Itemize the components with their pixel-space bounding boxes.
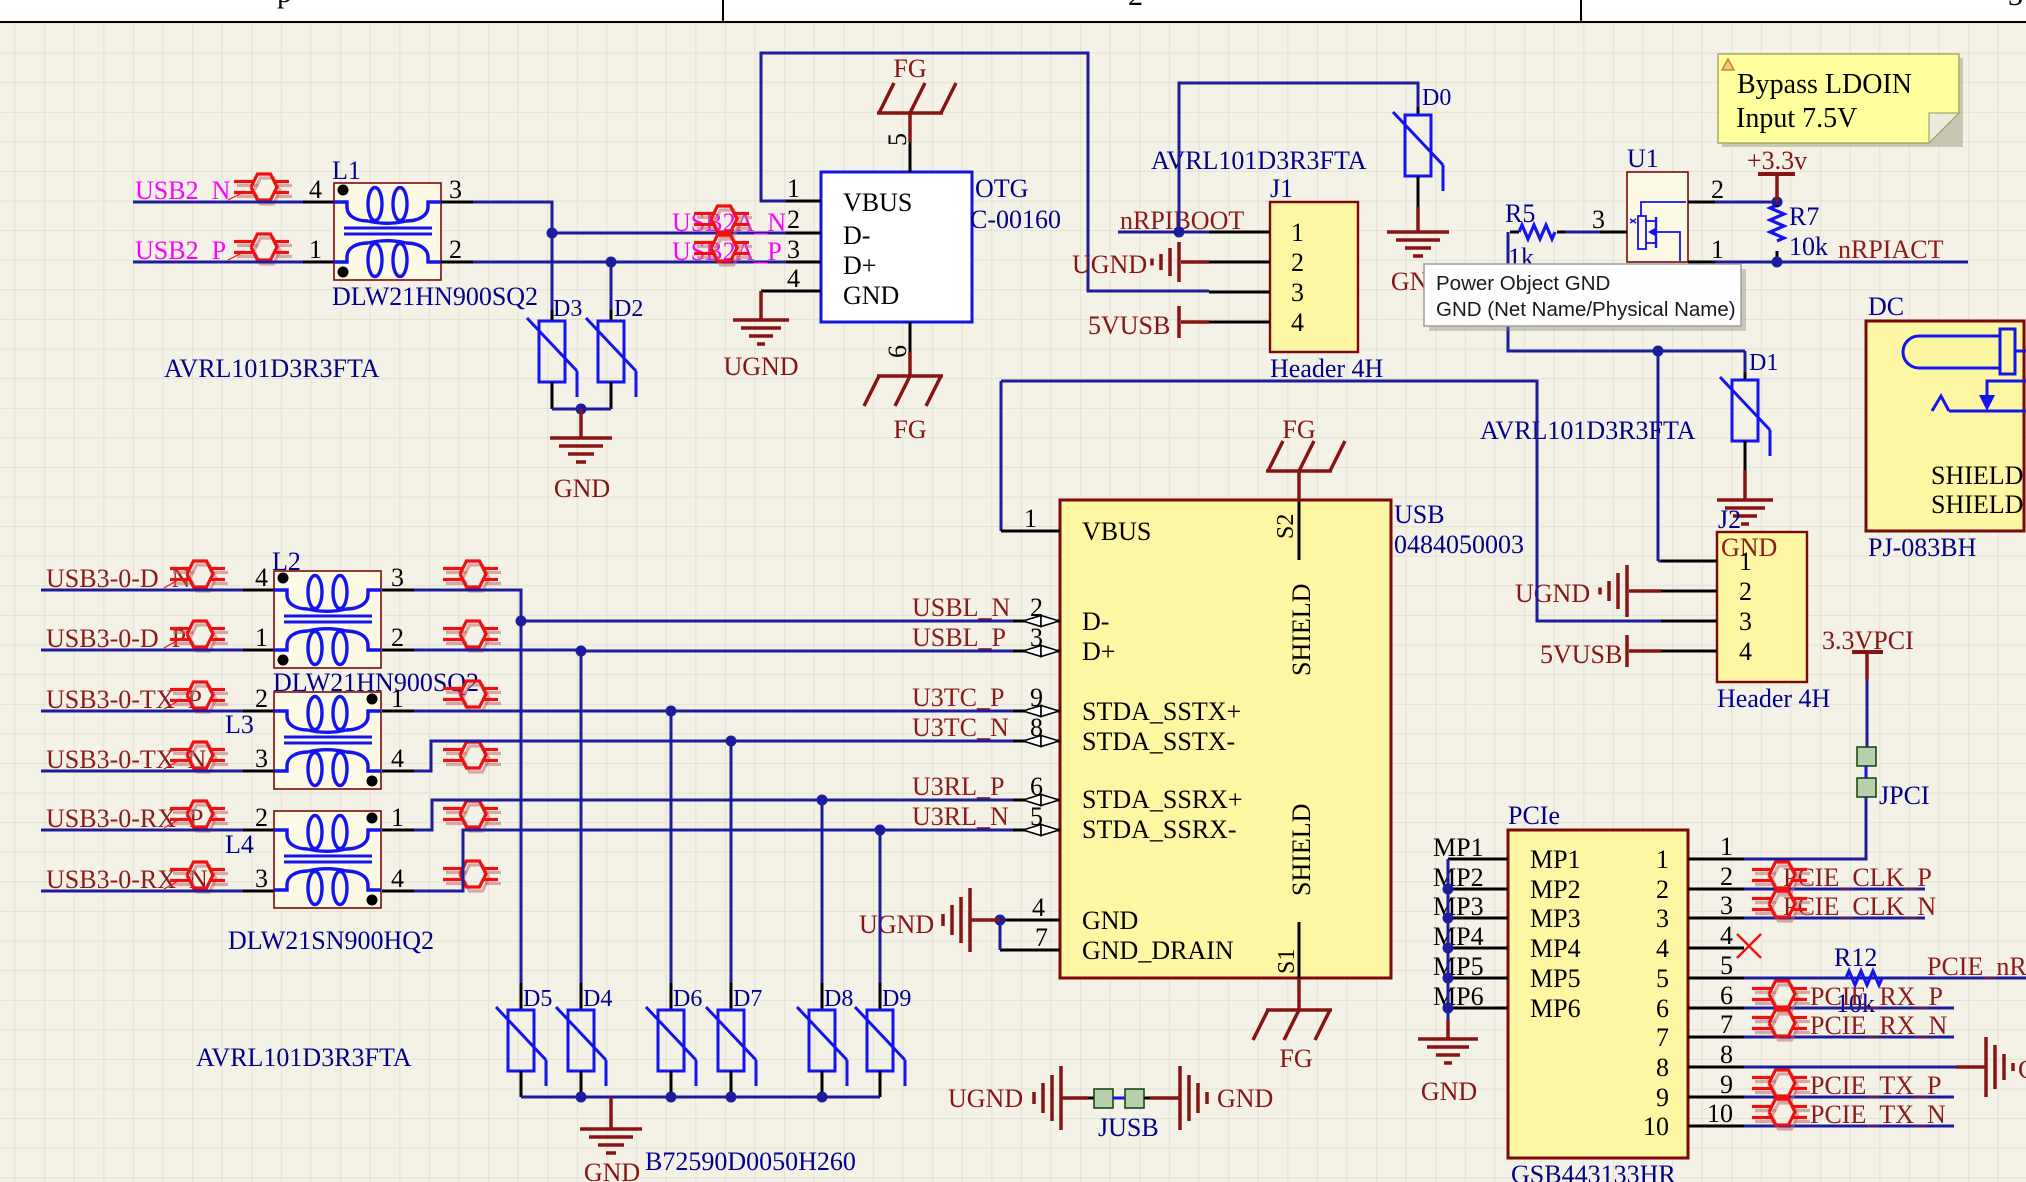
svg-text:Power Object GND: Power Object GND <box>1436 272 1610 295</box>
svg-text:4: 4 <box>1032 893 1045 922</box>
svg-text:MP2: MP2 <box>1530 875 1581 904</box>
svg-text:D4: D4 <box>583 986 612 1012</box>
svg-text:UGND: UGND <box>723 352 798 381</box>
svg-text:D6: D6 <box>673 986 702 1012</box>
svg-text:3: 3 <box>2008 0 2023 12</box>
svg-text:8: 8 <box>1656 1053 1669 1082</box>
svg-text:2: 2 <box>391 623 404 652</box>
svg-text:MP3: MP3 <box>1433 892 1484 921</box>
svg-text:4: 4 <box>1739 637 1752 666</box>
svg-text:MP6: MP6 <box>1433 982 1484 1011</box>
svg-text:3: 3 <box>255 744 268 773</box>
svg-text:3: 3 <box>391 563 404 592</box>
svg-text:FG: FG <box>893 415 926 444</box>
svg-text:STDA_SSTX-: STDA_SSTX- <box>1082 727 1235 756</box>
svg-text:2: 2 <box>787 205 800 234</box>
svg-text:GND: GND <box>1217 1084 1273 1113</box>
svg-text:AVRL101D3R3FTA: AVRL101D3R3FTA <box>196 1043 412 1072</box>
svg-text:U3RL_P: U3RL_P <box>912 772 1004 801</box>
svg-text:DLW21SN900HQ2: DLW21SN900HQ2 <box>228 926 434 955</box>
svg-text:USBL_P: USBL_P <box>912 623 1006 652</box>
svg-text:MP6: MP6 <box>1530 994 1581 1023</box>
svg-text:5: 5 <box>1656 964 1669 993</box>
svg-text:AVRL101D3R3FTA: AVRL101D3R3FTA <box>1151 146 1367 175</box>
svg-text:3: 3 <box>787 235 800 264</box>
svg-text:D8: D8 <box>824 986 853 1012</box>
svg-text:L1: L1 <box>332 156 361 185</box>
svg-text:6: 6 <box>883 345 912 358</box>
svg-text:6: 6 <box>1720 981 1733 1010</box>
svg-text:7: 7 <box>1720 1010 1733 1039</box>
svg-text:AVRL101D3R3FTA: AVRL101D3R3FTA <box>1480 416 1696 445</box>
svg-text:1: 1 <box>1711 235 1724 264</box>
svg-text:2: 2 <box>1720 862 1733 891</box>
svg-text:MP4: MP4 <box>1433 922 1484 951</box>
svg-text:9: 9 <box>1720 1070 1733 1099</box>
svg-text:STDA_SSRX+: STDA_SSRX+ <box>1082 785 1243 814</box>
svg-text:2: 2 <box>255 803 268 832</box>
svg-text:PCIE_nR: PCIE_nR <box>1927 952 2026 981</box>
svg-text:FG: FG <box>1279 1044 1312 1073</box>
svg-text:D2: D2 <box>614 296 643 322</box>
svg-text:3: 3 <box>255 864 268 893</box>
svg-text:2: 2 <box>255 684 268 713</box>
svg-text:9: 9 <box>1030 683 1043 712</box>
svg-text:3: 3 <box>1656 904 1669 933</box>
svg-text:JPCI: JPCI <box>1879 781 1930 810</box>
svg-text:5VUSB: 5VUSB <box>1540 640 1622 669</box>
svg-text:GND: GND <box>843 281 899 310</box>
svg-text:GND_DRAIN: GND_DRAIN <box>1082 936 1234 965</box>
svg-text:7: 7 <box>1035 923 1048 952</box>
svg-text:6: 6 <box>1656 994 1669 1023</box>
svg-text:USB: USB <box>1394 500 1445 529</box>
svg-text:AVRL101D3R3FTA: AVRL101D3R3FTA <box>164 354 380 383</box>
svg-text:PJ-083BH: PJ-083BH <box>1868 533 1977 562</box>
svg-text:10k: 10k <box>1789 232 1828 261</box>
svg-text:J1: J1 <box>1270 174 1293 203</box>
svg-text:Header 4H: Header 4H <box>1270 354 1384 383</box>
svg-text:S1: S1 <box>1274 949 1300 974</box>
svg-text:UGND: UGND <box>948 1084 1023 1113</box>
svg-text:GND: GND <box>1421 1077 1477 1106</box>
svg-text:R12: R12 <box>1834 943 1877 972</box>
svg-text:3: 3 <box>449 175 462 204</box>
svg-text:2: 2 <box>1711 175 1724 204</box>
svg-text:6: 6 <box>1030 772 1043 801</box>
svg-text:2: 2 <box>1656 875 1669 904</box>
svg-text:SHIELD: SHIELD <box>1287 584 1316 676</box>
svg-text:D7: D7 <box>733 986 762 1012</box>
svg-text:MP3: MP3 <box>1530 904 1581 933</box>
svg-text:PCIE_RX_P: PCIE_RX_P <box>1810 982 1943 1011</box>
svg-text:1: 1 <box>1291 218 1304 247</box>
svg-text:R5: R5 <box>1505 199 1535 228</box>
svg-text:D-: D- <box>843 221 870 250</box>
svg-text:p: p <box>277 0 292 9</box>
svg-text:2: 2 <box>449 235 462 264</box>
svg-text:D-: D- <box>1082 607 1109 636</box>
svg-text:2: 2 <box>1128 0 1143 12</box>
svg-text:SHIELD: SHIELD <box>1287 804 1316 896</box>
svg-text:GND: GND <box>554 474 610 503</box>
svg-text:Bypass LDOIN: Bypass LDOIN <box>1737 69 1912 100</box>
svg-text:J2: J2 <box>1718 505 1741 534</box>
svg-text:DC: DC <box>1868 292 1904 321</box>
svg-text:S2: S2 <box>1273 514 1299 539</box>
svg-text:OTG: OTG <box>975 174 1028 203</box>
svg-text:VBUS: VBUS <box>1082 517 1151 546</box>
svg-text:B72590D0050H260: B72590D0050H260 <box>645 1147 856 1176</box>
svg-text:G: G <box>2018 1055 2026 1084</box>
svg-text:SHIELD: SHIELD <box>1931 490 2023 519</box>
svg-text:10: 10 <box>1643 1112 1669 1141</box>
svg-text:STDA_SSTX+: STDA_SSTX+ <box>1082 697 1241 726</box>
svg-text:U1: U1 <box>1627 144 1659 173</box>
svg-text:R7: R7 <box>1789 202 1819 231</box>
svg-text:4: 4 <box>1720 921 1733 950</box>
svg-text:Input 7.5V: Input 7.5V <box>1736 103 1857 134</box>
svg-text:5: 5 <box>1030 802 1043 831</box>
svg-text:1: 1 <box>391 684 404 713</box>
svg-text:C-00160: C-00160 <box>970 205 1061 234</box>
svg-text:1: 1 <box>391 803 404 832</box>
svg-text:2: 2 <box>1739 577 1752 606</box>
svg-text:4: 4 <box>391 864 404 893</box>
svg-text:DLW21HN900SQ2: DLW21HN900SQ2 <box>332 282 538 311</box>
svg-text:D1: D1 <box>1749 350 1778 376</box>
svg-text:PCIE_TX_P: PCIE_TX_P <box>1810 1071 1941 1100</box>
svg-text:MP5: MP5 <box>1433 952 1484 981</box>
svg-text:5: 5 <box>883 133 912 146</box>
svg-text:PCIE_CLK_N: PCIE_CLK_N <box>1783 892 1936 921</box>
svg-text:3: 3 <box>1739 607 1752 636</box>
svg-text:D5: D5 <box>523 986 552 1012</box>
svg-text:D9: D9 <box>882 986 911 1012</box>
svg-text:PCIE_CLK_P: PCIE_CLK_P <box>1783 863 1932 892</box>
svg-text:4: 4 <box>255 563 268 592</box>
svg-text:D+: D+ <box>843 251 876 280</box>
svg-text:1: 1 <box>787 174 800 203</box>
svg-text:+3.3v: +3.3v <box>1747 146 1807 175</box>
svg-text:PCIE_RX_N: PCIE_RX_N <box>1810 1011 1947 1040</box>
svg-text:STDA_SSRX-: STDA_SSRX- <box>1082 815 1237 844</box>
svg-text:4: 4 <box>1656 934 1669 963</box>
svg-text:MP5: MP5 <box>1530 964 1581 993</box>
svg-text:U3RL_N: U3RL_N <box>912 802 1009 831</box>
svg-text:FG: FG <box>893 54 926 83</box>
svg-text:GSB443133HR: GSB443133HR <box>1511 1160 1676 1182</box>
svg-text:GND: GND <box>1082 906 1138 935</box>
svg-text:D+: D+ <box>1082 637 1115 666</box>
svg-text:3: 3 <box>1291 278 1304 307</box>
svg-text:8: 8 <box>1720 1040 1733 1069</box>
svg-text:5VUSB: 5VUSB <box>1088 311 1170 340</box>
svg-text:3: 3 <box>1592 205 1605 234</box>
svg-text:U3TC_N: U3TC_N <box>912 713 1009 742</box>
svg-text:JUSB: JUSB <box>1098 1113 1159 1142</box>
svg-text:PCIE_TX_N: PCIE_TX_N <box>1810 1100 1946 1129</box>
svg-text:2: 2 <box>1291 248 1304 277</box>
svg-text:4: 4 <box>391 744 404 773</box>
svg-text:4: 4 <box>309 175 322 204</box>
svg-text:1: 1 <box>1024 504 1037 533</box>
svg-text:1: 1 <box>1656 845 1669 874</box>
svg-text:VBUS: VBUS <box>843 188 912 217</box>
svg-text:GND (Net Name/Physical Name): GND (Net Name/Physical Name) <box>1436 298 1736 321</box>
svg-text:8: 8 <box>1030 713 1043 742</box>
svg-text:1: 1 <box>255 623 268 652</box>
svg-text:UGND: UGND <box>1072 250 1147 279</box>
svg-text:MP2: MP2 <box>1433 863 1484 892</box>
svg-text:1: 1 <box>1720 832 1733 861</box>
svg-text:2: 2 <box>1030 593 1043 622</box>
svg-text:MP1: MP1 <box>1433 833 1484 862</box>
svg-text:UGND: UGND <box>1515 579 1590 608</box>
svg-text:USBL_N: USBL_N <box>912 593 1010 622</box>
svg-text:3: 3 <box>1030 623 1043 652</box>
svg-text:nRPIACT: nRPIACT <box>1838 235 1944 264</box>
svg-text:L3: L3 <box>225 710 254 739</box>
svg-text:PCIe: PCIe <box>1508 801 1560 830</box>
svg-text:UGND: UGND <box>859 910 934 939</box>
svg-text:4: 4 <box>1291 308 1304 337</box>
svg-text:GND: GND <box>584 1158 640 1182</box>
svg-text:D3: D3 <box>553 296 582 322</box>
svg-text:L4: L4 <box>225 830 254 859</box>
svg-text:FG: FG <box>1282 415 1315 444</box>
svg-text:MP4: MP4 <box>1530 934 1581 963</box>
svg-text:4: 4 <box>787 264 800 293</box>
svg-text:1: 1 <box>1739 547 1752 576</box>
svg-text:7: 7 <box>1656 1023 1669 1052</box>
svg-text:MP1: MP1 <box>1530 845 1581 874</box>
svg-text:SHIELD: SHIELD <box>1931 461 2023 490</box>
svg-text:1: 1 <box>309 235 322 264</box>
svg-text:0484050003: 0484050003 <box>1394 530 1524 559</box>
svg-text:D0: D0 <box>1422 85 1451 111</box>
svg-text:5: 5 <box>1720 951 1733 980</box>
svg-text:3: 3 <box>1720 891 1733 920</box>
svg-text:10: 10 <box>1707 1099 1733 1128</box>
svg-text:U3TC_P: U3TC_P <box>912 683 1004 712</box>
svg-text:9: 9 <box>1656 1083 1669 1112</box>
svg-text:Header 4H: Header 4H <box>1717 684 1831 713</box>
